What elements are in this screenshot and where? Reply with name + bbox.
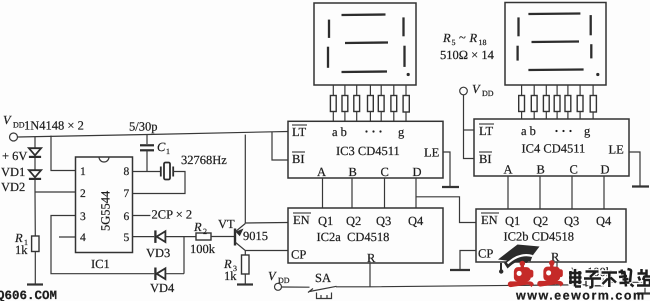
svg-text:Q1: Q1 — [505, 214, 520, 228]
DS2 decimal point — [596, 73, 599, 76]
svg-text:DD: DD — [482, 89, 494, 98]
svg-text:LT: LT — [479, 124, 493, 138]
resistor R2 — [196, 233, 211, 240]
wire C-Q3 — [384, 178, 386, 208]
svg-text:7: 7 — [124, 188, 130, 200]
wire collector to CP IC2a — [245, 250, 288, 252]
transistor emitter with arrow — [235, 224, 245, 237]
ground at R4 — [637, 292, 650, 294]
svg-text:BI: BI — [292, 152, 305, 166]
svg-text:LT: LT — [292, 125, 306, 139]
svg-text:32768Hz: 32768Hz — [181, 153, 227, 167]
IC2a box — [288, 208, 443, 263]
svg-text:IC3 CD4511: IC3 CD4511 — [336, 144, 400, 158]
svg-text:SA: SA — [315, 271, 331, 285]
ground at IC4 LE — [632, 185, 649, 187]
wire VD3 to R2 — [165, 236, 196, 238]
svg-text:IC4 CD4511: IC4 CD4511 — [522, 142, 586, 156]
svg-text:5/30p: 5/30p — [129, 120, 157, 134]
DS1 segment d — [342, 70, 388, 73]
resistors R12-R18 network under DS2 — [519, 85, 597, 119]
svg-text:IC2b CD4518: IC2b CD4518 — [504, 230, 575, 244]
wire emitter node to EN IC2a — [245, 222, 288, 225]
DS1 segment a — [342, 13, 386, 16]
DS1 segment g — [345, 41, 388, 44]
svg-text:Q3: Q3 — [564, 214, 579, 228]
DS1 decimal point — [407, 73, 410, 76]
svg-text:DD: DD — [13, 121, 25, 130]
DS2 segment e — [516, 46, 518, 61]
DS1 segment c — [403, 46, 405, 67]
svg-text:Q2: Q2 — [533, 214, 548, 228]
display DS2 box — [505, 3, 606, 86]
svg-text:1k: 1k — [224, 269, 237, 283]
svg-text:D: D — [601, 163, 610, 177]
wire A-Q1 right — [507, 176, 509, 209]
ground at IC2b CP — [450, 269, 470, 271]
wire IC4 LT stub — [464, 129, 475, 131]
svg-text:5: 5 — [124, 232, 130, 244]
svg-text:A: A — [317, 165, 326, 179]
ground below R3 — [237, 283, 253, 285]
svg-text:BI: BI — [479, 152, 492, 166]
display DS1 box — [314, 3, 416, 85]
wire V_DD rail top — [18, 132, 289, 138]
svg-text:3: 3 — [80, 211, 86, 223]
node C1 bottom junction — [146, 135, 148, 144]
svg-text:+ 6V: + 6V — [2, 149, 27, 163]
svg-text:Q606.COM: Q606.COM — [0, 289, 57, 301]
wire D-Q4 right — [603, 176, 605, 209]
svg-text:EN: EN — [293, 213, 310, 227]
resistor R4 — [586, 279, 603, 286]
wire B-Q2 — [351, 178, 353, 208]
resistor R12 — [521, 85, 523, 96]
ground below R1 — [27, 283, 43, 285]
wire pin4 stub — [59, 236, 76, 238]
svg-text:D: D — [413, 165, 422, 179]
IC1 box — [76, 157, 133, 253]
svg-text:IC2a CD4518: IC2a CD4518 — [317, 230, 390, 244]
svg-text:a b: a b — [521, 124, 536, 138]
DS1 segment e — [327, 47, 329, 68]
switch SA — [308, 286, 337, 298]
svg-text:R: R — [367, 251, 376, 265]
resistor R14 — [545, 85, 547, 96]
resistor R15 — [556, 85, 558, 96]
terminal V_DD bottom — [275, 283, 282, 290]
svg-text:Q1: Q1 — [318, 214, 333, 228]
svg-text:R: R — [442, 31, 451, 45]
svg-text:VD4: VD4 — [150, 281, 175, 295]
resistor R6 — [344, 85, 346, 96]
DS2 segment d — [528, 68, 583, 71]
svg-text:C: C — [570, 163, 578, 177]
svg-text:~: ~ — [459, 31, 466, 45]
svg-text:EN: EN — [481, 213, 498, 227]
wire diode chain drop — [34, 137, 36, 148]
wire C-Q3 right — [571, 176, 573, 209]
terminal +6V V_DD — [10, 133, 18, 141]
watermark red bug characters — [508, 260, 564, 287]
svg-text:g: g — [584, 124, 591, 138]
wire R1 to ground — [34, 252, 36, 285]
wire VDD to switch — [282, 286, 310, 288]
DS2 segment b — [590, 15, 592, 35]
svg-text:C: C — [157, 140, 166, 154]
svg-text:1N4148 × 2: 1N4148 × 2 — [24, 119, 84, 133]
wire IC2b R to reset rail — [556, 262, 558, 286]
resistor R5 — [332, 85, 334, 96]
IC3 box — [288, 121, 443, 178]
resistor R16 — [567, 85, 569, 96]
wire pin6 stub 2CP — [133, 215, 151, 217]
DS1 segment f — [328, 20, 330, 38]
IC4 box — [474, 119, 629, 176]
svg-text:5: 5 — [452, 38, 456, 47]
transistor Q1 base bar — [234, 229, 236, 246]
svg-text:VD3: VD3 — [146, 246, 170, 260]
svg-text:100k: 100k — [190, 242, 216, 256]
IC2b box — [476, 209, 626, 262]
svg-text:www.eeworm.com: www.eeworm.com — [515, 289, 646, 301]
DS1 segment b — [402, 17, 404, 36]
wire crystal loop to pin7 — [133, 172, 186, 194]
svg-text:a b: a b — [332, 125, 347, 139]
svg-text:CP: CP — [291, 248, 306, 262]
svg-text:VD2: VD2 — [1, 180, 25, 194]
wire pin8 to crystal — [133, 171, 161, 173]
transistor collector — [235, 242, 245, 255]
DS2 segment c — [590, 44, 592, 58]
svg-text:1: 1 — [80, 166, 86, 178]
wire pin2 stub — [35, 191, 76, 193]
watermark chinese site name — [569, 269, 650, 288]
crystal B1 32768Hz — [161, 163, 173, 180]
wire VDD to IC4 LT BI — [464, 95, 475, 159]
svg-text:B: B — [537, 163, 545, 177]
IC3 dots — [365, 130, 381, 132]
svg-text:VD1: VD1 — [1, 165, 25, 179]
svg-text:5G5544: 5G5544 — [99, 190, 113, 231]
wire IC2a R to reset rail — [369, 263, 371, 287]
diode VD3 — [155, 230, 165, 243]
svg-text:510Ω × 14: 510Ω × 14 — [440, 48, 495, 62]
svg-text:g: g — [398, 125, 405, 139]
resistors R5-R11 network under DS1 — [330, 85, 409, 121]
wire IC3 LE to ground — [443, 152, 450, 187]
terminal V_DD mid-right — [460, 87, 468, 95]
resistor R8 — [369, 85, 371, 96]
resistor R7 — [356, 85, 358, 96]
svg-text:Q4: Q4 — [408, 214, 424, 228]
wire A-Q1 — [322, 178, 324, 208]
svg-text:B: B — [349, 165, 357, 179]
svg-text:2CP × 2: 2CP × 2 — [152, 208, 193, 222]
wire D-Q4 — [415, 178, 417, 208]
DS2 segment a — [528, 12, 580, 15]
svg-text:4: 4 — [80, 232, 86, 244]
svg-text:Q2: Q2 — [346, 214, 361, 228]
resistor R17 — [579, 85, 581, 96]
DS2 segment f — [517, 17, 519, 36]
svg-text:1: 1 — [166, 147, 170, 156]
svg-text:A: A — [504, 163, 513, 177]
svg-text:IC1: IC1 — [91, 257, 110, 271]
resistor R1 — [32, 236, 39, 252]
svg-text:R: R — [193, 220, 202, 234]
wire IC3 BI to rail drop — [272, 132, 288, 160]
wire between VD1 VD2 — [34, 158, 36, 170]
svg-text:8: 8 — [124, 166, 130, 178]
wire R2 to base — [211, 236, 234, 238]
svg-text:6: 6 — [124, 211, 130, 223]
svg-text:Q3: Q3 — [376, 214, 391, 228]
svg-text:2: 2 — [80, 188, 86, 200]
svg-text:Q4: Q4 — [596, 214, 612, 228]
wire reset rail — [336, 285, 586, 287]
svg-text:CP: CP — [478, 247, 493, 261]
ground at IC3 LE — [442, 186, 459, 188]
wire IC2b CP to ground — [460, 251, 476, 270]
resistor R10 — [393, 85, 395, 96]
diode VD1 — [29, 148, 41, 157]
svg-text:LE: LE — [424, 146, 440, 160]
diode VD2 — [29, 170, 41, 179]
resistor R11 — [405, 85, 407, 96]
wire pin1 to rail — [51, 136, 76, 171]
IC4 dots — [555, 130, 571, 132]
svg-text:1k: 1k — [15, 243, 28, 257]
svg-text:VT: VT — [218, 217, 235, 231]
svg-text:DD: DD — [278, 276, 290, 285]
wire B-Q2 right — [539, 176, 541, 209]
svg-text:9015: 9015 — [243, 229, 268, 243]
wire R3 to ground — [244, 274, 246, 285]
wire pin3 to VD4 branch — [51, 216, 154, 274]
svg-text:18: 18 — [479, 38, 487, 47]
svg-text:C: C — [381, 165, 389, 179]
wire pin5 to VD3 — [133, 236, 155, 238]
wire VD2 to pin2 junction and down to R1 — [34, 180, 36, 236]
wire R4 to right ground — [603, 282, 645, 293]
watermark graduation cap — [498, 245, 540, 274]
resistor R9 — [380, 85, 382, 96]
DS2 segment g — [532, 40, 580, 43]
resistor R3 — [242, 255, 250, 274]
svg-text:LE: LE — [609, 143, 625, 157]
diode VD4 — [155, 268, 184, 281]
wire IC4 LE to ground — [629, 152, 640, 186]
svg-text:R: R — [469, 31, 478, 45]
IC1 notch — [99, 157, 109, 162]
node VD3-R2 junction to VD4 — [183, 237, 185, 274]
resistor R13 — [533, 85, 535, 96]
wire carry Q4 to EN IC2b — [416, 197, 476, 223]
capacitor C1 — [140, 145, 154, 171]
wire emitter to VDD rail — [244, 135, 246, 224]
resistor R18 — [592, 85, 594, 96]
svg-text:2: 2 — [203, 227, 207, 236]
